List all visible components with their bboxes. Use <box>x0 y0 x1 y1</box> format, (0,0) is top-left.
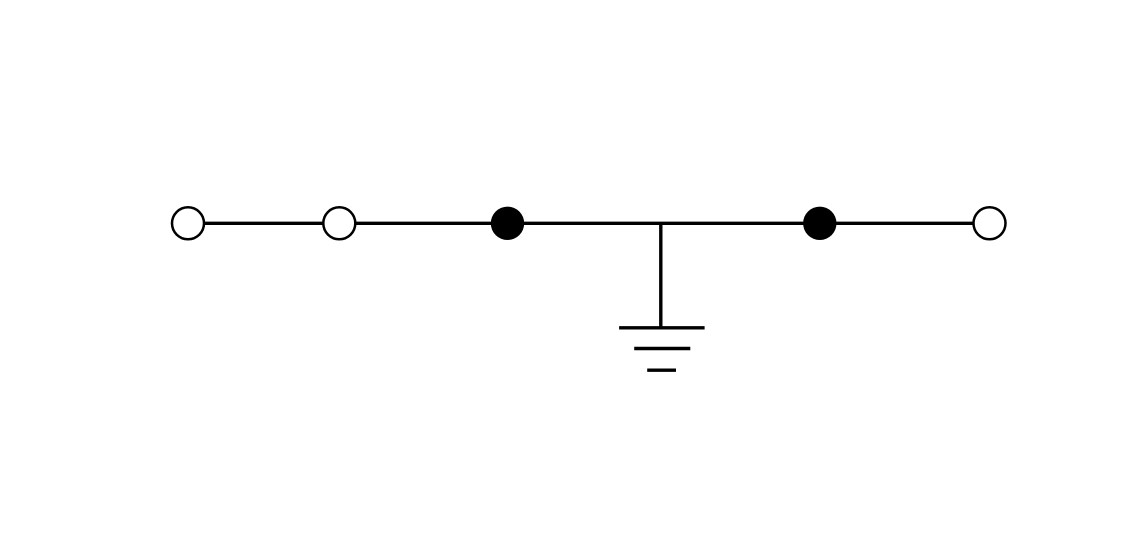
node open terminal 1 <box>172 207 204 239</box>
wire vertical to ground <box>659 223 662 328</box>
node junction dot 2 <box>803 207 836 240</box>
node open terminal 2 <box>323 207 355 239</box>
ground <box>619 328 705 370</box>
node open terminal 3 <box>974 207 1006 239</box>
node junction dot 1 <box>491 207 524 240</box>
wire main horizontal bus <box>188 222 990 225</box>
